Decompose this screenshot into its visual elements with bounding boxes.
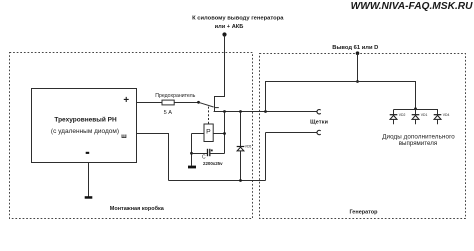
node: terminal 61 tap on enclosure (356, 51, 360, 55)
svg-text:+: + (123, 95, 129, 106)
wire: main line to upper brush (214, 111, 318, 113)
relay fixed contact tick (215, 107, 219, 109)
svg-text:Монтажная коробка: Монтажная коробка (110, 205, 165, 212)
diode VD5 in montage box (237, 112, 252, 181)
diode VD2 (390, 110, 406, 125)
svg-text:Предохранитель: Предохранитель (155, 93, 195, 99)
wire: regulator minus to ground (88, 163, 90, 197)
svg-text:выпрямителя: выпрямителя (399, 140, 437, 147)
wire: terminal 61 drop (357, 54, 359, 82)
montage box dashed enclosure (10, 53, 253, 219)
svg-text:WWW.NIVA-FAQ.MSK.RU: WWW.NIVA-FAQ.MSK.RU (351, 1, 473, 12)
relay contact blade (199, 102, 214, 107)
wire: coil left lead (192, 133, 205, 135)
svg-text:Р: Р (206, 128, 211, 135)
node junction coil right (223, 132, 226, 135)
svg-text:К силовому выводу генератора: К силовому выводу генератора (192, 15, 284, 21)
mechanical link dashed (208, 107, 210, 124)
svg-text:Вывод 61 или D: Вывод 61 или D (332, 45, 378, 51)
svg-text:VD2: VD2 (399, 113, 406, 117)
diode VD1 (412, 110, 428, 125)
svg-text:Щетки: Щетки (310, 120, 328, 126)
wire: left vertical to ground (191, 134, 193, 166)
node junction capacitor left (190, 152, 193, 155)
regulator box: three-level voltage regulator (32, 89, 137, 163)
node junction on main line at feed (223, 110, 226, 113)
node junction at diode bus (414, 107, 417, 110)
wire: regulator plus output to fuse and switch pivot (137, 102, 199, 104)
svg-text:VD4: VD4 (443, 113, 450, 117)
wire: coil right lead (213, 133, 224, 135)
capacitor C1 2200uF 25V (192, 149, 225, 166)
wire: regulator Sh terminal (137, 134, 169, 181)
wire: generator top bus (266, 82, 416, 112)
wire: auxiliary diode bus (394, 109, 439, 111)
upper brush contact (317, 110, 321, 114)
generator box dashed enclosure (260, 54, 466, 219)
svg-text:С: С (202, 155, 206, 161)
node: power feed top terminal (222, 32, 226, 36)
svg-text:VD1: VD1 (421, 113, 428, 117)
node junction at diode VD5 bottom (239, 179, 242, 182)
wire: power feed vertical from top (215, 35, 225, 112)
node junction on main line at generator bus drop (264, 110, 267, 113)
svg-text:(с удаленным диодом): (с удаленным диодом) (51, 128, 119, 135)
relay contact pivot node (197, 101, 200, 104)
wire: right side of relay coil loop (224, 112, 226, 154)
fuse F1 5A (155, 93, 195, 116)
svg-text:Трехуровневый РН: Трехуровневый РН (54, 115, 117, 123)
diode VD4 (434, 110, 450, 125)
ground at regulator minus (85, 196, 93, 199)
svg-text:или + АКБ: или + АКБ (215, 24, 244, 30)
wire: lower brush return vertical (265, 133, 267, 181)
wire: lower brush line (266, 132, 318, 134)
node junction on main line at diode VD5 (239, 110, 242, 113)
wire: bottom link shunt line (169, 180, 266, 182)
svg-text:5 А: 5 А (164, 110, 173, 116)
svg-text:Генератор: Генератор (349, 209, 378, 215)
relay coil K1 (204, 124, 213, 142)
ground at capacitor (188, 166, 196, 169)
svg-text:ш: ш (121, 133, 127, 140)
node junction on generator bus (356, 80, 359, 83)
svg-text:VD5: VD5 (245, 145, 252, 149)
svg-text:2200х25v: 2200х25v (203, 161, 223, 166)
lower brush contact (317, 130, 321, 134)
